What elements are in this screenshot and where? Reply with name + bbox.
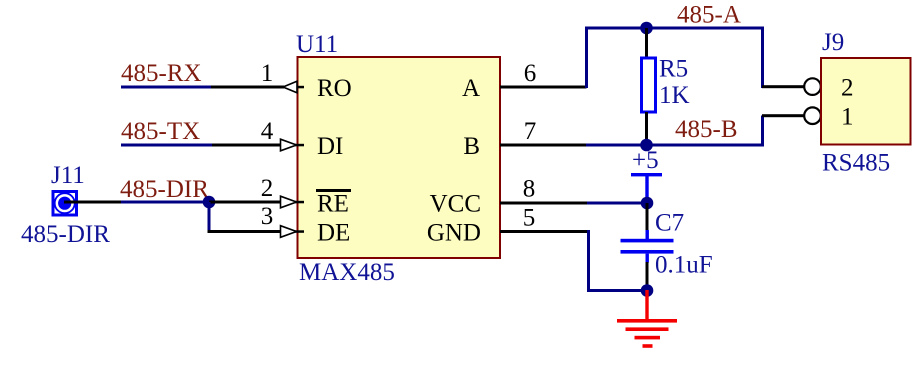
svg-text:6: 6 bbox=[524, 60, 537, 87]
J9 pin number 1 bbox=[841, 104, 854, 131]
svg-text:MAX485: MAX485 bbox=[299, 259, 395, 286]
pin name DE bbox=[317, 220, 350, 247]
svg-text:485-DIR: 485-DIR bbox=[21, 221, 110, 248]
svg-text:J9: J9 bbox=[822, 29, 844, 56]
svg-text:2: 2 bbox=[261, 175, 274, 202]
wire net 485-A rail bbox=[585, 27, 764, 30]
designator C7 bbox=[655, 210, 684, 237]
pin number 6 bbox=[524, 60, 537, 87]
value 1K bbox=[659, 82, 690, 109]
svg-text:4: 4 bbox=[261, 118, 274, 145]
svg-text:RE: RE bbox=[317, 191, 349, 218]
svg-text:485-TX: 485-TX bbox=[121, 118, 200, 145]
label 485-DIR (blue) bbox=[21, 221, 110, 248]
designator U11 bbox=[296, 31, 338, 58]
svg-text:RS485: RS485 bbox=[822, 150, 890, 177]
pin name GND bbox=[427, 220, 481, 247]
svg-text:0.1uF: 0.1uF bbox=[655, 252, 713, 279]
J11 pin wire bbox=[64, 201, 121, 204]
net label 485-TX bbox=[121, 118, 200, 145]
pin number 1 bbox=[261, 60, 274, 87]
wire net 485-RX bbox=[121, 86, 211, 89]
svg-text:C7: C7 bbox=[655, 210, 684, 237]
connector J11 bbox=[53, 192, 77, 216]
J9 pin 2 circle bbox=[804, 78, 821, 95]
svg-text:8: 8 bbox=[523, 176, 536, 203]
svg-text:1: 1 bbox=[261, 60, 274, 87]
pin 6 wire stub bbox=[500, 86, 587, 89]
capacitor C7 bbox=[621, 203, 674, 291]
value 0.1uF bbox=[655, 252, 713, 279]
svg-text:+5: +5 bbox=[632, 147, 659, 174]
net label 485-RX bbox=[121, 60, 202, 87]
wire net 485-B rail bbox=[586, 144, 764, 147]
svg-text:A: A bbox=[462, 75, 480, 102]
pin number 3 bbox=[261, 203, 274, 230]
pin name A bbox=[462, 75, 480, 102]
pin number 7 bbox=[524, 118, 537, 145]
net label 485-DIR bbox=[120, 176, 209, 203]
svg-text:RO: RO bbox=[317, 75, 352, 102]
J9 pin 2 wire bbox=[762, 85, 805, 88]
svg-text:GND: GND bbox=[427, 220, 481, 247]
pin 1 wire stub bbox=[211, 86, 304, 89]
designator R5 bbox=[659, 56, 688, 83]
svg-text:DE: DE bbox=[317, 220, 350, 247]
junction C7/GND bbox=[641, 284, 654, 297]
pin 3 input arrow bbox=[281, 226, 297, 238]
resistor R5 bbox=[642, 28, 656, 145]
designator J11 bbox=[51, 162, 85, 189]
J9 pin number 2 bbox=[841, 75, 854, 102]
svg-text:B: B bbox=[463, 133, 480, 160]
pin number 2 bbox=[261, 175, 274, 202]
svg-text:485-A: 485-A bbox=[677, 2, 741, 29]
pin number 8 bbox=[523, 176, 536, 203]
pin 4 input arrow bbox=[281, 139, 297, 151]
wire VCC to +5 junction bbox=[587, 202, 647, 205]
wire GND horizontal to ground junction bbox=[587, 289, 647, 292]
svg-text:DI: DI bbox=[317, 133, 343, 160]
svg-text:485-RX: 485-RX bbox=[121, 60, 202, 87]
svg-text:J11: J11 bbox=[51, 162, 85, 189]
svg-text:485-B: 485-B bbox=[675, 116, 738, 143]
pin 3 wire stub bbox=[208, 230, 305, 233]
svg-text:2: 2 bbox=[841, 75, 854, 102]
svg-text:3: 3 bbox=[261, 203, 274, 230]
wire vertical pin6 up to 485-A bbox=[585, 28, 588, 88]
pin number 4 bbox=[261, 118, 274, 145]
svg-text:1: 1 bbox=[841, 104, 854, 131]
wire vertical 485-A down to J9 pin2 bbox=[761, 28, 764, 88]
pin 2 input arrow bbox=[281, 196, 297, 208]
net label 485-A bbox=[677, 2, 741, 29]
power +5 symbol bbox=[631, 147, 662, 203]
pin 8 wire stub bbox=[500, 202, 587, 205]
label RS485 bbox=[822, 150, 890, 177]
wire vertical 485-B up to J9 pin1 bbox=[761, 116, 764, 147]
pin 2 wire stub bbox=[209, 201, 304, 204]
designator J9 bbox=[822, 29, 844, 56]
svg-text:VCC: VCC bbox=[430, 191, 481, 218]
ground symbol bbox=[617, 290, 677, 348]
connector J9 body bbox=[821, 58, 911, 145]
net label 485-B bbox=[675, 116, 738, 143]
svg-text:1K: 1K bbox=[659, 82, 690, 109]
wire GND vertical down bbox=[587, 230, 590, 291]
pin name RO bbox=[317, 75, 352, 102]
junction 485-B / R5 bbox=[640, 139, 653, 152]
op-amp U1 body: MAX485 chip rectangle bbox=[298, 57, 501, 258]
pin name DI bbox=[317, 133, 343, 160]
wire net 485-DIR bbox=[121, 201, 209, 204]
pin number 5 bbox=[523, 205, 536, 232]
pin 5 wire stub bbox=[500, 230, 589, 233]
svg-text:7: 7 bbox=[524, 118, 537, 145]
svg-text:R5: R5 bbox=[659, 56, 688, 83]
junction at 485-DIR split bbox=[203, 196, 216, 209]
pin name RE with overline bbox=[316, 189, 351, 218]
pin 1 output arrow bbox=[283, 81, 297, 93]
svg-text:5: 5 bbox=[523, 205, 536, 232]
pin name B bbox=[463, 133, 480, 160]
pin 7 wire stub bbox=[500, 144, 586, 147]
svg-text:485-DIR: 485-DIR bbox=[120, 176, 209, 203]
wire net 485-TX bbox=[121, 144, 212, 147]
junction 485-A / R5 bbox=[640, 22, 653, 35]
pin 4 wire stub bbox=[212, 144, 304, 147]
J9 pin 1 circle bbox=[804, 107, 821, 124]
J9 pin 1 wire bbox=[762, 114, 805, 117]
wire vertical to DE bbox=[208, 202, 211, 232]
value label MAX485 bbox=[299, 259, 395, 286]
junction VCC/+5/C7 bbox=[641, 197, 654, 210]
pin name VCC bbox=[430, 191, 481, 218]
svg-text:U11: U11 bbox=[296, 31, 338, 58]
